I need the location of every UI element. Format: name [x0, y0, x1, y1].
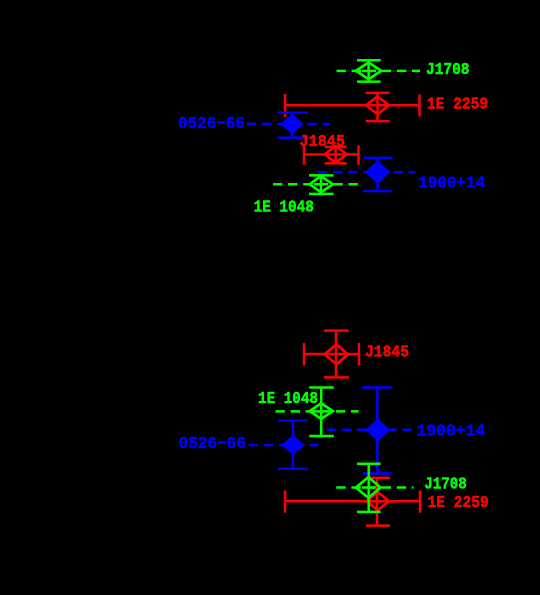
svg-text:1900+14: 1900+14 — [418, 175, 485, 194]
node 1900+14 (top): vertical error bar with caps — [363, 158, 393, 191]
svg-text:J1845: J1845 — [300, 133, 346, 152]
node 1E 1048 (top): open diamond marker — [310, 176, 333, 192]
node 1E 1048 (bottom): vertical error bar with caps — [309, 388, 334, 437]
node J1845 (bottom): vertical error bar with caps — [324, 331, 349, 378]
node J1845 (top): open diamond marker — [325, 146, 347, 163]
node 1E 2259 (top): open diamond marker — [366, 96, 389, 114]
node J1708 (bottom): open diamond marker — [356, 477, 381, 498]
node 0526-66 (top): vertical error bar with caps — [278, 113, 309, 138]
svg-text:J1845: J1845 — [365, 343, 409, 362]
node 1E 2259 (bottom): open diamond marker — [367, 492, 389, 510]
node J1845 (bottom): horizontal error bar with caps — [304, 343, 359, 365]
node J1708 (top): dashed leader line — [337, 70, 421, 73]
node 1E 2259 (top): horizontal error bar with caps — [285, 94, 420, 117]
node 0526-66 (bottom): vertical error bar with caps — [278, 421, 308, 469]
node J1708 (top): open diamond marker — [356, 62, 381, 79]
node 1900+14 (top): filled diamond marker — [366, 161, 390, 183]
node 1900+14 (top): dashed leader line — [318, 171, 416, 174]
svg-text:1900+14: 1900+14 — [416, 423, 485, 442]
node 0526-66 (top): filled diamond marker — [281, 114, 303, 134]
node 1900+14 (bottom): vertical error bar with caps — [362, 387, 392, 473]
node 0526-66 (bottom): filled diamond marker — [282, 436, 304, 454]
node 1E 2259 (bottom): vertical error bar with caps — [366, 478, 390, 526]
svg-text:0526−66: 0526−66 — [179, 435, 246, 454]
svg-text:1E 2259: 1E 2259 — [427, 96, 488, 115]
node J1708 (bottom): dashed leader line — [336, 486, 413, 489]
node J1708 (top): vertical error bar with caps — [357, 60, 381, 81]
node 1E 1048 (bottom): dashed leader line — [276, 410, 359, 413]
node J1845 (bottom): open diamond marker — [325, 344, 348, 364]
svg-text:1E 1048: 1E 1048 — [254, 198, 314, 217]
node 1900+14 (bottom): filled diamond marker — [366, 419, 389, 441]
node J1845 (top): vertical error bar with caps — [325, 147, 347, 164]
node 0526-66 (bottom): dashed leader line — [249, 444, 319, 447]
node 0526-66 (top): dashed leader line — [247, 123, 330, 126]
node 1E 1048 (bottom): open diamond marker — [310, 403, 333, 419]
node 1E 1048 (top): vertical error bar with caps — [309, 175, 334, 194]
svg-text:1E 1048: 1E 1048 — [258, 390, 318, 409]
svg-text:J1708: J1708 — [426, 61, 470, 80]
svg-text:1E 2259: 1E 2259 — [428, 494, 489, 513]
node 1E 2259 (bottom): horizontal error bar with caps — [285, 490, 420, 512]
node J1708 (bottom): vertical error bar with caps — [357, 464, 381, 512]
node 1E 1048 (top): dashed leader line — [273, 183, 360, 186]
node 1900+14 (bottom): dashed leader line — [327, 429, 415, 432]
svg-text:0526−66: 0526−66 — [178, 115, 245, 134]
svg-text:J1708: J1708 — [424, 475, 467, 494]
node 1E 2259 (top): vertical error bar with caps — [366, 93, 390, 121]
node J1845 (top): horizontal error bar with caps — [304, 145, 359, 164]
